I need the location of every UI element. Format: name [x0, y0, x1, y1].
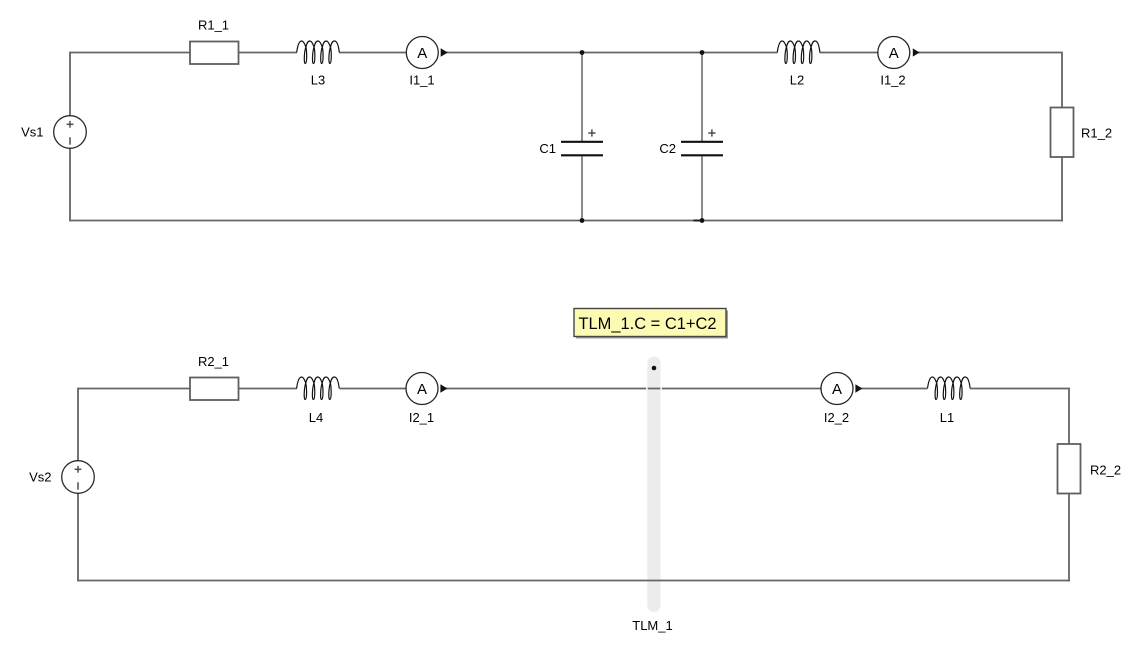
svg-text:C1: C1	[539, 141, 556, 156]
annotation TLM_1.C = C1+C2	[574, 309, 728, 339]
wire bottom circuit: R2_2 bottom pin to bottom-right corner	[1068, 491, 1070, 581]
voltage source Vs2	[29, 461, 94, 494]
node junction C2 bottom	[700, 218, 705, 223]
svg-text:L3: L3	[311, 73, 325, 88]
svg-text:R2_2: R2_2	[1090, 462, 1121, 477]
resistor R2_2	[1058, 444, 1122, 494]
svg-text:L2: L2	[790, 73, 804, 88]
wire bottom circuit: I2_2 right pin to L1 left pin	[858, 388, 928, 390]
wire top circuit: R1_1 right pin to L3 left pin	[237, 52, 297, 54]
wire top circuit: node C2-top to L2 left pin	[702, 52, 778, 54]
resistor R2_1	[190, 354, 239, 400]
svg-text:I1_2: I1_2	[880, 73, 905, 88]
wire bottom circuit: Vs2 top terminal to R2_1 left pin	[78, 388, 191, 390]
wire bottom circuit: L1 right pin to top-right corner down to R2_2	[970, 389, 1069, 447]
wire top circuit: Vs1 top terminal to R1_1 left pin	[70, 52, 191, 54]
node junction C1 bottom	[580, 218, 585, 223]
wire bottom circuit: I2_1 right pin across TLM_1 to I2_2 left pin	[444, 388, 821, 390]
node junction C1 top	[580, 50, 585, 55]
wire top circuit: L2 right pin to I1_2 left pin	[820, 52, 884, 54]
ammeter I2_1	[406, 373, 447, 425]
wire bottom circuit: left vertical Vs2 branch	[77, 388, 79, 582]
svg-text:TLM_1.C = C1+C2: TLM_1.C = C1+C2	[579, 314, 717, 333]
capacitor C1	[539, 129, 603, 156]
svg-text:L4: L4	[309, 410, 323, 425]
wire top circuit: C2 branch lower	[701, 157, 703, 221]
wire top circuit: R1_2 bottom pin to bottom-right corner	[1061, 155, 1063, 221]
svg-text:I1_1: I1_1	[409, 73, 434, 88]
ammeter I1_2	[878, 37, 920, 88]
svg-text:R1_1: R1_1	[198, 18, 229, 33]
wire top circuit: C1 branch lower	[581, 157, 583, 221]
transmission line TLM_1 terminal node and label	[632, 366, 672, 633]
resistor R1_2	[1051, 108, 1113, 158]
wire top circuit: C2 branch upper	[701, 53, 703, 142]
wire top circuit: left vertical Vs1 branch	[69, 52, 71, 222]
wire bottom circuit: R2_1 right pin to L4 left pin	[237, 388, 297, 390]
resistor R1_1	[190, 18, 239, 64]
inductor L4	[297, 377, 340, 425]
wire top circuit: L3 right pin to I1_1 left pin	[339, 52, 412, 54]
capacitor C2	[659, 129, 723, 220]
ammeter I2_2	[821, 373, 862, 425]
inductor L2	[777, 41, 820, 88]
wire top circuit: I1_2 right pin to top-right corner down to R1_2	[917, 53, 1062, 111]
wire top circuit: C1 branch upper	[581, 53, 583, 142]
wire top circuit: I1_1 right pin to node C1-top	[444, 52, 582, 54]
inductor L3	[297, 41, 340, 88]
svg-text:I2_2: I2_2	[824, 410, 849, 425]
inductor L1	[928, 377, 971, 425]
svg-text:R2_1: R2_1	[198, 354, 229, 369]
svg-text:A: A	[889, 45, 899, 62]
transmission line TLM_1 body	[647, 357, 660, 613]
voltage source Vs1	[21, 116, 86, 149]
wire top circuit: node C1-top to node C2-top	[582, 52, 702, 54]
svg-text:C2: C2	[659, 141, 676, 156]
wire bottom circuit: L4 right pin to I2_1 left pin	[339, 388, 412, 390]
ammeter I1_1	[406, 37, 447, 88]
svg-text:R1_2: R1_2	[1081, 126, 1112, 141]
svg-text:A: A	[417, 381, 427, 398]
svg-text:Vs2: Vs2	[29, 470, 51, 485]
svg-text:I2_1: I2_1	[409, 410, 434, 425]
svg-text:Vs1: Vs1	[21, 125, 43, 140]
svg-text:A: A	[832, 381, 842, 398]
wire top circuit: bottom rail	[69, 220, 1063, 222]
svg-text:TLM_1: TLM_1	[632, 618, 672, 633]
wire bottom circuit: bottom rail	[77, 580, 1070, 582]
svg-text:A: A	[417, 45, 427, 62]
svg-text:L1: L1	[940, 410, 954, 425]
node junction C2 top	[700, 50, 705, 55]
